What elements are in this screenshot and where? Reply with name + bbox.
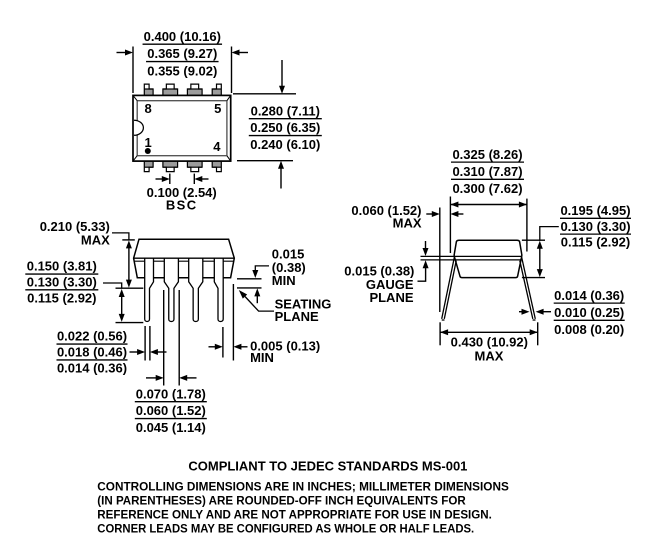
svg-text:0.015 (0.38): 0.015 (0.38)	[344, 263, 414, 278]
svg-text:MIN: MIN	[250, 350, 274, 365]
svg-text:BSC: BSC	[166, 197, 198, 212]
svg-text:4: 4	[213, 139, 221, 154]
svg-text:0.250 (6.35): 0.250 (6.35)	[250, 120, 320, 135]
svg-text:0.430 (10.92): 0.430 (10.92)	[451, 335, 528, 350]
svg-text:0.300 (7.62): 0.300 (7.62)	[452, 181, 522, 196]
svg-text:(IN PARENTHESES) ARE ROUNDED-O: (IN PARENTHESES) ARE ROUNDED-OFF INCH EQ…	[97, 494, 466, 508]
svg-text:COMPLIANT TO JEDEC STANDARDS M: COMPLIANT TO JEDEC STANDARDS MS-001	[188, 459, 467, 474]
svg-text:MIN: MIN	[272, 273, 296, 288]
svg-text:PLANE: PLANE	[369, 290, 413, 305]
svg-text:8: 8	[144, 101, 151, 116]
svg-text:0.008 (0.20): 0.008 (0.20)	[554, 322, 624, 337]
svg-text:CONTROLLING DIMENSIONS ARE IN: CONTROLLING DIMENSIONS ARE IN INCHES; MI…	[97, 480, 509, 494]
svg-text:REFERENCE ONLY AND ARE NOT APP: REFERENCE ONLY AND ARE NOT APPROPRIATE F…	[97, 507, 492, 521]
svg-text:5: 5	[214, 101, 221, 116]
svg-text:0.115 (2.92): 0.115 (2.92)	[561, 235, 630, 250]
svg-text:0.022 (0.56): 0.022 (0.56)	[57, 329, 127, 344]
svg-text:0.070 (1.78): 0.070 (1.78)	[136, 386, 206, 401]
svg-text:0.400 (10.16): 0.400 (10.16)	[144, 29, 221, 44]
svg-text:0.195 (4.95): 0.195 (4.95)	[560, 203, 630, 218]
svg-text:0.130 (3.30): 0.130 (3.30)	[27, 275, 97, 290]
svg-text:MAX: MAX	[475, 349, 504, 364]
svg-text:0.115 (2.92): 0.115 (2.92)	[27, 290, 96, 305]
svg-text:0.018 (0.46): 0.018 (0.46)	[57, 345, 127, 360]
svg-text:0.365 (9.27): 0.365 (9.27)	[147, 46, 217, 61]
svg-text:0.325 (8.26): 0.325 (8.26)	[452, 147, 522, 162]
svg-text:PLANE: PLANE	[275, 309, 319, 324]
svg-text:0.355 (9.02): 0.355 (9.02)	[147, 64, 217, 79]
svg-text:0.045 (1.14): 0.045 (1.14)	[136, 420, 206, 435]
svg-text:MAX: MAX	[81, 233, 110, 248]
svg-text:0.014 (0.36): 0.014 (0.36)	[57, 361, 127, 376]
svg-text:0.150 (3.81): 0.150 (3.81)	[27, 259, 97, 274]
svg-text:0.310 (7.87): 0.310 (7.87)	[452, 164, 522, 179]
svg-text:0.130 (3.30): 0.130 (3.30)	[560, 219, 630, 234]
svg-text:0.010 (0.25): 0.010 (0.25)	[554, 305, 624, 320]
svg-text:0.240 (6.10): 0.240 (6.10)	[250, 137, 320, 152]
svg-text:MAX: MAX	[393, 216, 422, 231]
svg-text:0.280 (7.11): 0.280 (7.11)	[251, 103, 320, 118]
svg-text:0.060 (1.52): 0.060 (1.52)	[136, 403, 206, 418]
svg-text:0.014 (0.36): 0.014 (0.36)	[554, 288, 624, 303]
svg-text:CORNER LEADS MAY BE CONFIGURED: CORNER LEADS MAY BE CONFIGURED AS WHOLE …	[97, 521, 474, 535]
svg-text:1: 1	[144, 135, 151, 150]
